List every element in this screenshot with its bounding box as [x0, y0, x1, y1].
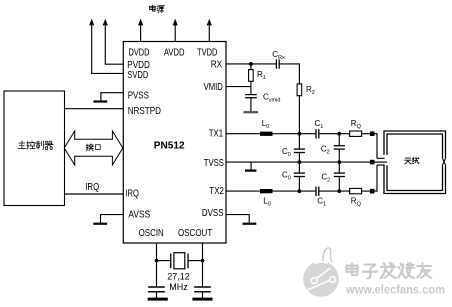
wire SVDD [91, 72, 123, 74]
terminal TX2 [370, 189, 375, 194]
interface double arrow [64, 131, 123, 165]
capacitor C1 top [315, 129, 317, 138]
wire TX2 [226, 190, 260, 192]
antenna feed TX1 [375, 133, 378, 135]
wire RX [226, 63, 276, 65]
ground left load [148, 298, 168, 301]
svg-text:C1: C1 [317, 197, 326, 208]
antenna crossover [443, 158, 446, 165]
resistor R2 [297, 84, 302, 96]
crystal X1 27.12MHz [170, 254, 172, 269]
capacitor C2 top [338, 134, 340, 146]
antenna inner loop [387, 134, 443, 191]
svg-text:AVSS: AVSS [128, 210, 150, 221]
label 主控制器 [18, 141, 25, 149]
resistor RQ bottom [350, 188, 362, 193]
capacitor C1 bottom [315, 187, 317, 196]
resistor R1 [250, 64, 252, 70]
node TX2-C0 junction [298, 189, 302, 193]
svg-text:C0: C0 [282, 171, 291, 182]
svg-text:R1: R1 [257, 70, 266, 81]
svg-text:NRSTPD: NRSTPD [128, 106, 161, 117]
svg-text:SVDD: SVDD [127, 70, 148, 81]
svg-text:RQ: RQ [351, 197, 362, 208]
svg-text:RX: RX [211, 59, 223, 70]
svg-text:Cvmid: Cvmid [263, 93, 280, 104]
node RX junction [249, 62, 253, 66]
antenna tap caps [377, 157, 385, 159]
power arrow DVDD [138, 19, 143, 26]
svg-text:RQ: RQ [351, 119, 362, 130]
resistor RQ top [350, 131, 362, 136]
svg-text:OSCIN: OSCIN [139, 228, 164, 239]
svg-text:TVSS: TVSS [204, 158, 224, 169]
antenna feed TX2 [375, 190, 378, 192]
svg-text:TVDD: TVDD [197, 47, 217, 58]
svg-text:R2: R2 [306, 85, 315, 96]
svg-text:VMID: VMID [204, 82, 223, 93]
ground PVSS [101, 92, 123, 94]
watermark logo disc [303, 261, 339, 297]
capacitor right load [194, 286, 211, 288]
power arrow to SVDD [89, 19, 94, 26]
label 天线 [405, 158, 411, 164]
wire TVSS [226, 161, 370, 163]
node OSCIN junction [155, 259, 159, 263]
svg-text:TX2: TX2 [209, 186, 224, 197]
microcontroller box 主控制器 [4, 91, 65, 206]
node TVSS-C2 junction [337, 160, 341, 164]
svg-text:OSCOUT: OSCOUT [178, 228, 212, 239]
antenna center tap wire [375, 161, 388, 163]
node TVSS-C0 junction [298, 160, 302, 164]
svg-text:27,12: 27,12 [167, 272, 190, 282]
inductor L0 top [260, 132, 273, 136]
IC U1 PN512 body [123, 42, 226, 244]
svg-text:C0: C0 [282, 147, 291, 158]
wire crystal left [157, 260, 171, 262]
svg-text:C2: C2 [321, 145, 330, 156]
inductor L0 bottom [260, 189, 273, 193]
svg-text:C2: C2 [321, 172, 330, 183]
power arrow TVDD [207, 19, 212, 26]
capacitor left load [148, 286, 165, 288]
svg-text:MHz: MHz [169, 282, 188, 292]
node OSCOUT junction [201, 259, 205, 263]
power arrow to PVDD [103, 19, 108, 26]
svg-text:PN512: PN512 [154, 140, 185, 152]
svg-text:www.elecfans.com: www.elecfans.com [345, 285, 445, 297]
wire IRQ [65, 193, 124, 195]
capacitor C2 bottom [338, 162, 340, 173]
wire OSCIN [156, 243, 158, 287]
svg-text:AVDD: AVDD [164, 47, 185, 58]
capacitor C0 bottom [298, 162, 300, 173]
wire PVDD [105, 63, 124, 65]
svg-text:CRx: CRx [272, 50, 285, 61]
svg-text:DVSS: DVSS [202, 208, 224, 219]
watermark text 电子发烧友 [346, 263, 357, 275]
ground AVSS [101, 214, 124, 216]
label 接口 [86, 144, 93, 151]
wire NRSTPD [65, 108, 124, 110]
ground Cvmid [244, 111, 259, 113]
svg-text:C1: C1 [315, 119, 324, 130]
svg-text:DVDD: DVDD [129, 47, 150, 58]
svg-text:PVSS: PVSS [128, 90, 149, 101]
wire OSCOUT [202, 243, 204, 287]
svg-text:IRQ: IRQ [125, 189, 139, 200]
wire TX1 [226, 133, 260, 135]
antenna outer loop [384, 131, 446, 194]
svg-text:IRQ: IRQ [85, 182, 99, 193]
capacitor C0 top [298, 134, 300, 149]
ground right load [192, 298, 212, 301]
node TX1-R2 junction [298, 132, 302, 136]
terminal TVSS [370, 160, 375, 165]
wire VMID [226, 86, 251, 88]
node C1-C2 junction top [337, 132, 341, 136]
svg-text:L0: L0 [262, 119, 270, 130]
power arrow AVDD [173, 19, 178, 26]
node C1-C2 junction bottom [337, 189, 341, 193]
wire crystal right [188, 260, 203, 262]
capacitor CRx [275, 59, 277, 68]
terminal TX1 [370, 131, 375, 136]
svg-text:L0: L0 [263, 196, 271, 207]
power label 电源 [150, 5, 156, 11]
svg-text:TX1: TX1 [209, 128, 224, 139]
ground DVSS [226, 214, 249, 216]
wire R2 top [298, 63, 300, 84]
ground TVSS [250, 162, 252, 170]
capacitor Cvmid [250, 87, 252, 95]
